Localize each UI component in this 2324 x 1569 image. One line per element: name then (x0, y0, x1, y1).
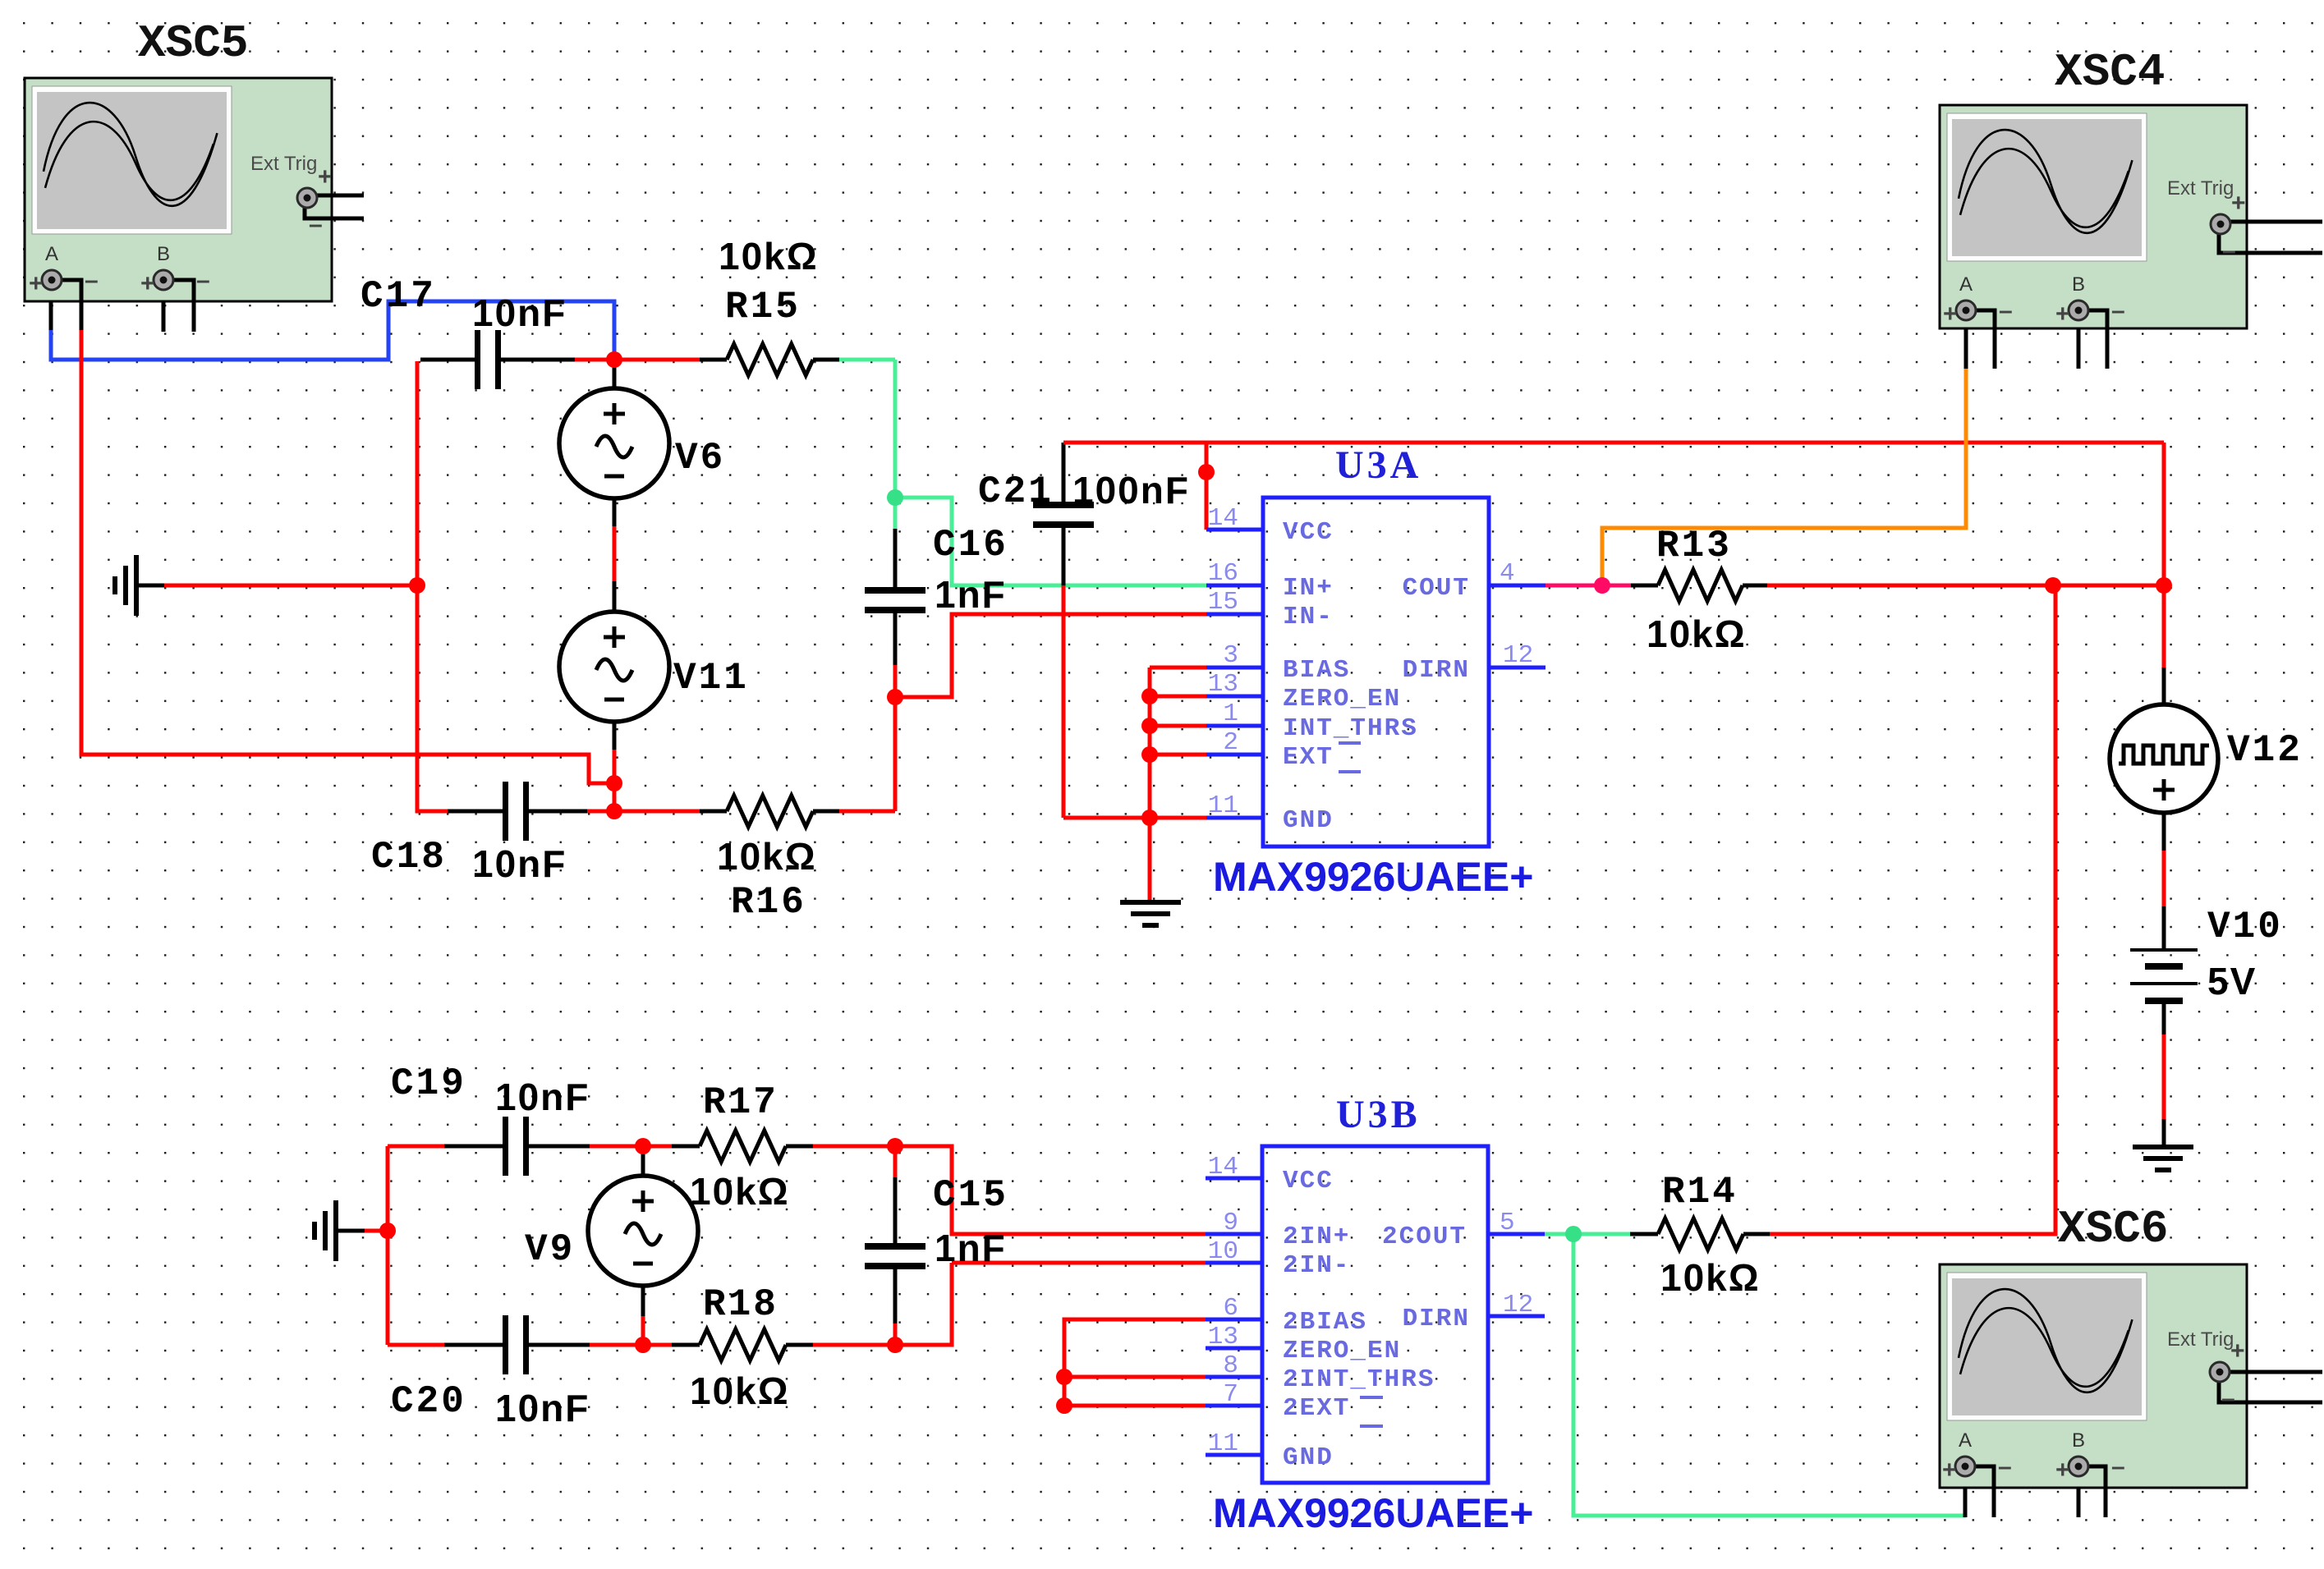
svg-text:B: B (2072, 1429, 2085, 1452)
svg-text:MAX9926UAEE+: MAX9926UAEE+ (1213, 854, 1533, 900)
svg-text:V10: V10 (2207, 906, 2283, 948)
svg-text:C21: C21 (978, 470, 1054, 513)
svg-text:+: + (29, 270, 44, 297)
svg-text:GND: GND (1283, 806, 1334, 835)
svg-text:R15: R15 (725, 286, 801, 328)
svg-text:R14: R14 (1662, 1171, 1738, 1213)
svg-text:V12: V12 (2227, 729, 2303, 772)
svg-text:7: 7 (1223, 1380, 1238, 1409)
svg-text:+: + (2055, 1457, 2070, 1484)
svg-text:10kΩ: 10kΩ (719, 235, 819, 278)
svg-text:16: 16 (1208, 559, 1238, 588)
svg-text:MAX9926UAEE+: MAX9926UAEE+ (1213, 1490, 1533, 1536)
svg-text:A: A (45, 243, 58, 265)
svg-text:6: 6 (1223, 1294, 1238, 1323)
svg-text:ZERO_EN: ZERO_EN (1283, 685, 1401, 713)
svg-text:R18: R18 (703, 1283, 778, 1326)
svg-text:IN+: IN+ (1283, 574, 1334, 603)
svg-text:11: 11 (1208, 1429, 1238, 1458)
svg-text:R17: R17 (703, 1081, 778, 1124)
svg-text:R16: R16 (731, 881, 806, 924)
svg-text:U3A: U3A (1335, 443, 1421, 487)
svg-text:10nF: 10nF (495, 1076, 590, 1118)
svg-text:INT_THRS: INT_THRS (1283, 714, 1418, 743)
svg-text:12: 12 (1503, 641, 1533, 670)
svg-text:5V: 5V (2207, 960, 2257, 1002)
svg-text:–: – (2221, 1385, 2235, 1412)
svg-text:V9: V9 (525, 1228, 575, 1271)
svg-text:1nF: 1nF (935, 573, 1007, 616)
svg-text:+: + (2055, 300, 2070, 328)
svg-text:A: A (1959, 1429, 1972, 1452)
svg-text:V11: V11 (673, 657, 749, 700)
svg-text:–: – (2111, 297, 2125, 324)
svg-text:11: 11 (1208, 791, 1238, 820)
svg-text:XSC5: XSC5 (138, 17, 248, 70)
svg-text:–: – (309, 211, 323, 238)
svg-text:B: B (2072, 273, 2085, 296)
svg-text:COUT: COUT (1403, 574, 1470, 603)
svg-text:14: 14 (1208, 504, 1238, 533)
svg-text:C15: C15 (933, 1174, 1008, 1217)
svg-text:DIRN: DIRN (1403, 1305, 1470, 1333)
svg-text:10kΩ: 10kΩ (1647, 612, 1747, 655)
svg-text:ZERO_EN: ZERO_EN (1283, 1337, 1401, 1365)
svg-text:10kΩ: 10kΩ (717, 835, 817, 878)
svg-text:1nF: 1nF (935, 1227, 1007, 1269)
svg-text:Ext Trig: Ext Trig (2167, 177, 2234, 200)
svg-text:–: – (1999, 297, 2013, 324)
svg-text:10kΩ: 10kΩ (1660, 1256, 1761, 1299)
svg-text:XSC6: XSC6 (2058, 1203, 2168, 1255)
svg-text:3: 3 (1223, 641, 1238, 670)
svg-text:4: 4 (1500, 559, 1515, 588)
svg-text:V6: V6 (675, 437, 725, 479)
svg-text:U3B: U3B (1336, 1093, 1421, 1136)
svg-text:Ext Trig: Ext Trig (2167, 1328, 2234, 1351)
svg-text:10kΩ: 10kΩ (690, 1170, 790, 1213)
svg-text:+: + (140, 270, 155, 297)
svg-text:15: 15 (1208, 588, 1238, 617)
svg-text:+: + (318, 163, 333, 190)
svg-text:10nF: 10nF (472, 291, 567, 334)
svg-text:C20: C20 (391, 1380, 466, 1423)
svg-text:5: 5 (1500, 1209, 1515, 1237)
svg-text:2INT_THRS: 2INT_THRS (1283, 1365, 1435, 1394)
svg-text:B: B (157, 243, 170, 265)
svg-text:9: 9 (1223, 1209, 1238, 1237)
svg-text:2EXT: 2EXT (1283, 1394, 1350, 1423)
svg-text:10kΩ: 10kΩ (690, 1369, 790, 1412)
svg-text:13: 13 (1208, 670, 1238, 699)
svg-text:14: 14 (1208, 1153, 1238, 1181)
svg-text:–: – (85, 267, 99, 294)
svg-text:2IN+: 2IN+ (1283, 1223, 1350, 1251)
svg-text:XSC4: XSC4 (2055, 46, 2165, 99)
svg-text:GND: GND (1283, 1443, 1334, 1472)
svg-text:10nF: 10nF (472, 842, 567, 885)
svg-text:13: 13 (1208, 1323, 1238, 1351)
svg-text:+: + (1943, 300, 1958, 328)
svg-text:VCC: VCC (1283, 518, 1334, 547)
svg-text:12: 12 (1503, 1291, 1533, 1319)
svg-text:10: 10 (1208, 1237, 1238, 1266)
svg-text:C16: C16 (933, 524, 1008, 567)
svg-text:–: – (1998, 1453, 2012, 1480)
svg-text:2BIAS: 2BIAS (1283, 1308, 1367, 1337)
svg-text:A: A (1959, 273, 1973, 296)
svg-text:C19: C19 (391, 1062, 466, 1105)
svg-text:100nF: 100nF (1072, 469, 1190, 512)
svg-text:C17: C17 (361, 275, 436, 318)
svg-text:1: 1 (1223, 700, 1238, 728)
svg-text:IN-: IN- (1283, 603, 1334, 631)
svg-text:R13: R13 (1656, 525, 1732, 567)
svg-text:VCC: VCC (1283, 1167, 1334, 1195)
svg-text:2COUT: 2COUT (1382, 1223, 1467, 1251)
svg-text:8: 8 (1223, 1351, 1238, 1380)
svg-text:Ext Trig: Ext Trig (250, 153, 317, 175)
svg-text:DIRN: DIRN (1403, 656, 1470, 685)
svg-text:2: 2 (1223, 728, 1238, 757)
svg-text:BIAS: BIAS (1283, 656, 1350, 685)
svg-text:–: – (2111, 1453, 2125, 1480)
svg-text:10nF: 10nF (495, 1387, 590, 1429)
svg-text:–: – (2222, 237, 2236, 264)
svg-text:2IN-: 2IN- (1283, 1251, 1350, 1280)
svg-text:C18: C18 (371, 836, 447, 879)
svg-text:+: + (1942, 1457, 1957, 1484)
svg-text:–: – (196, 267, 210, 294)
svg-text:EXT: EXT (1283, 743, 1334, 772)
